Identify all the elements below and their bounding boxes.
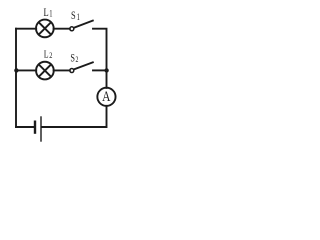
battery B1 short plate (negative) <box>34 122 36 133</box>
wire S2 fixed contact to right node <box>93 69 107 71</box>
svg-text:1: 1 <box>49 8 52 18</box>
svg-text:S: S <box>70 52 75 65</box>
label S1 <box>71 10 80 23</box>
wire lamp L1 to switch S1 <box>54 28 70 30</box>
wire second row: left node to lamp L2 <box>16 69 36 71</box>
svg-text:2: 2 <box>49 50 52 60</box>
wire lamp L2 to switch S2 <box>54 69 70 71</box>
lamp L1 <box>36 20 54 38</box>
svg-text:2: 2 <box>76 55 79 64</box>
wire ammeter bottom to bottom-right corner and left to battery <box>42 106 107 127</box>
svg-text:L: L <box>44 7 49 20</box>
label L1 <box>44 7 53 20</box>
label L2 <box>44 50 53 61</box>
wire top row: left corner to lamp L1 <box>16 28 36 30</box>
svg-text:S: S <box>71 10 76 23</box>
lamp L2 <box>36 62 54 80</box>
switch S1 (pivot circle and open blade) <box>70 21 93 31</box>
label S2 <box>70 52 78 65</box>
wire left vertical (top-left corner down to bottom-left corner) <box>15 29 17 127</box>
svg-text:A: A <box>102 88 111 105</box>
svg-text:1: 1 <box>77 12 80 22</box>
wire S1 fixed contact to top-right corner and down to node <box>93 29 107 71</box>
wire battery to bottom-left corner <box>16 126 34 128</box>
node junction dot left <box>14 68 18 72</box>
ammeter A1 circle <box>97 88 115 106</box>
battery B1 long plate (positive) <box>40 117 42 141</box>
wire right node down to ammeter top <box>106 70 108 88</box>
node junction dot right <box>104 68 108 72</box>
switch S2 (pivot circle and open blade) <box>70 62 93 72</box>
svg-text:L: L <box>44 50 49 61</box>
